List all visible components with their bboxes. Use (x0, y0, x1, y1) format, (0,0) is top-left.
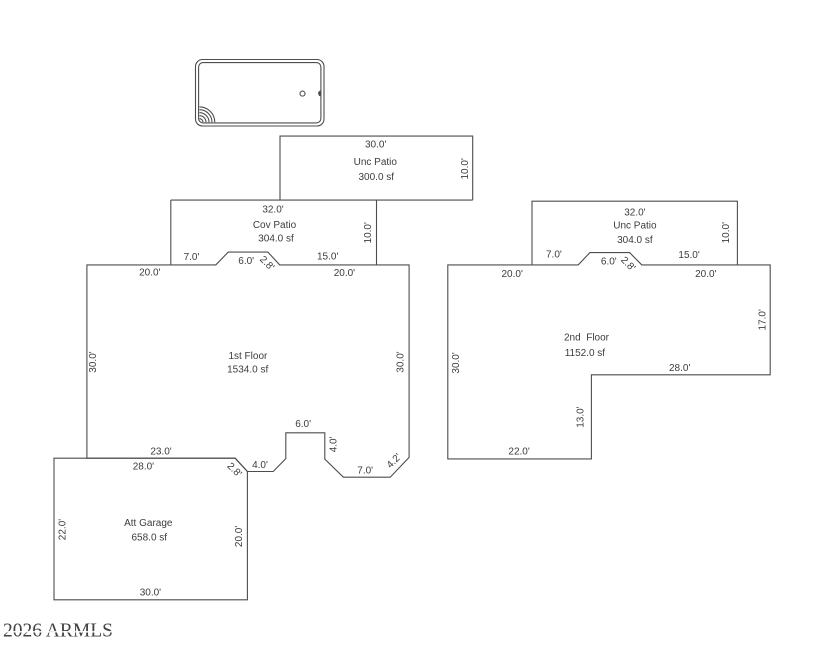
svg-text:20.0': 20.0' (234, 526, 245, 547)
svg-text:32.0': 32.0' (262, 204, 283, 215)
svg-text:304.0 sf: 304.0 sf (258, 233, 294, 244)
garage outline (54, 458, 247, 600)
svg-text:10.0': 10.0' (721, 222, 732, 243)
svg-text:22.0': 22.0' (57, 519, 68, 540)
svg-text:15.0': 15.0' (317, 252, 338, 263)
unc patio left outline (280, 136, 473, 200)
unc patio right outline (532, 201, 737, 265)
svg-text:20.0': 20.0' (502, 269, 523, 280)
svg-text:6.0': 6.0' (295, 419, 311, 430)
pool circle fitting (300, 91, 305, 96)
patio shared bottom wall (171, 199, 473, 201)
svg-text:7.0': 7.0' (546, 249, 562, 260)
svg-text:Unc Patio: Unc Patio (613, 221, 657, 232)
svg-text:300.0 sf: 300.0 sf (359, 172, 395, 183)
svg-text:1534.0 sf: 1534.0 sf (227, 365, 268, 376)
svg-text:13.0': 13.0' (576, 406, 587, 427)
svg-text:30.0': 30.0' (395, 351, 406, 372)
svg-text:6.0': 6.0' (601, 257, 617, 268)
svg-text:1st Floor: 1st Floor (228, 351, 268, 362)
svg-text:15.0': 15.0' (678, 250, 699, 261)
svg-text:10.0': 10.0' (460, 158, 471, 179)
svg-text:22.0': 22.0' (508, 447, 529, 458)
svg-text:Cov Patio: Cov Patio (253, 220, 297, 231)
svg-text:32.0': 32.0' (624, 207, 645, 218)
svg-text:10.0': 10.0' (363, 222, 374, 243)
svg-text:28.0': 28.0' (133, 462, 154, 473)
svg-text:20.0': 20.0' (139, 268, 160, 279)
svg-text:6.0': 6.0' (238, 256, 254, 267)
svg-text:Unc Patio: Unc Patio (354, 157, 398, 168)
svg-text:30.0': 30.0' (88, 351, 99, 372)
svg-text:28.0': 28.0' (669, 363, 690, 374)
svg-text:2nd Floor: 2nd Floor (564, 333, 610, 344)
pool side fitting (318, 90, 321, 96)
svg-text:7.0': 7.0' (184, 252, 200, 263)
cov patio left wall (170, 200, 172, 265)
svg-text:4.2': 4.2' (385, 452, 404, 471)
svg-text:304.0 sf: 304.0 sf (617, 235, 653, 246)
pool steps arcs (200, 107, 215, 122)
2nd floor outline (448, 253, 770, 459)
svg-text:23.0': 23.0' (150, 446, 171, 457)
svg-text:30.0': 30.0' (140, 587, 161, 598)
svg-text:17.0': 17.0' (758, 309, 769, 330)
pool inner shell (199, 63, 321, 123)
svg-text:2026 ARMLS: 2026 ARMLS (3, 621, 113, 642)
svg-text:20.0': 20.0' (334, 268, 355, 279)
watermark stencil gap (3, 631, 112, 633)
svg-text:30.0': 30.0' (451, 352, 462, 373)
svg-text:4.0': 4.0' (252, 460, 268, 471)
1st floor outline (87, 252, 409, 477)
cov patio right wall (376, 200, 378, 265)
svg-text:7.0': 7.0' (357, 466, 373, 477)
svg-text:30.0': 30.0' (365, 139, 386, 150)
svg-text:658.0 sf: 658.0 sf (132, 533, 168, 544)
svg-text:4.0': 4.0' (328, 436, 339, 452)
svg-text:1152.0 sf: 1152.0 sf (565, 348, 606, 359)
svg-text:Att Garage: Att Garage (124, 518, 173, 529)
pool outer shell (196, 60, 325, 127)
svg-text:20.0': 20.0' (695, 269, 716, 280)
svg-text:2.8': 2.8' (257, 254, 276, 273)
